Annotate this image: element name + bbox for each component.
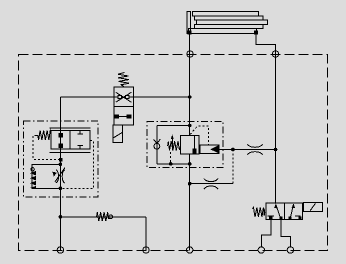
shutoff valve box2 square left (115, 115, 119, 118)
shutoff valve spring (118, 73, 129, 88)
pilot junction square (59, 159, 62, 161)
wire stack right to port (256, 34, 276, 203)
adjustable throttle arcs (56, 170, 64, 183)
solenoid diagonal (310, 203, 315, 211)
wire valve port B (281, 219, 290, 247)
adjustable throttle arrow (55, 168, 65, 182)
counterbalance piston strip (194, 136, 199, 154)
port circle bottom 4 (258, 247, 264, 253)
right box bottom port pin (289, 217, 291, 219)
check valve ball (154, 143, 160, 149)
throttle block spring chevron 4 (30, 186, 36, 189)
spring seat tab (263, 209, 265, 215)
junction dot (169, 162, 173, 166)
junction dot (59, 187, 63, 191)
throttle block spring chevron 2 (30, 176, 36, 181)
stack anchor left (188, 31, 191, 34)
junction dot (231, 148, 235, 152)
strip port square bottom (193, 149, 196, 153)
load stack plate 1 (193, 12, 259, 16)
port circle bottom 5 (287, 247, 293, 253)
system boundary dashed border (19, 55, 328, 251)
shutoff valve box 2 (114, 106, 133, 125)
compensator right box T top (77, 131, 83, 134)
junction dot (188, 182, 192, 186)
junction dot (188, 124, 192, 128)
load stack plate 5 (189, 29, 257, 34)
check valve seat (154, 139, 161, 143)
counterbalance pilot dashed top (190, 126, 208, 145)
junction dot (188, 162, 192, 166)
load stack plate 2 (195, 16, 264, 20)
wire left drop to flow control (59, 97, 61, 251)
wire bottom left right drop (145, 217, 147, 251)
right box T port pin (299, 217, 301, 219)
left box T (268, 216, 275, 220)
shutoff valve box2 path (116, 115, 131, 117)
port circle top right (272, 51, 278, 57)
pilot dashed riser (232, 150, 234, 184)
wire throttle branch (190, 183, 233, 185)
check valve ball bottom (109, 215, 113, 219)
throttle block circle (31, 168, 34, 171)
port circle bottom 1 (57, 247, 63, 253)
counterbalance enclosure dash-dot (147, 122, 223, 168)
compensator spring (37, 130, 52, 140)
pilot line dotted left (33, 136, 59, 160)
throttle block spring chevron 1 (30, 171, 36, 176)
compensator valve divider (69, 131, 71, 149)
junction dot (274, 148, 278, 152)
counterbalance arrow (171, 139, 173, 151)
port circle bottom 2 (143, 247, 149, 253)
load stack plate 4 (195, 24, 264, 28)
fixed throttle right arcs (247, 144, 262, 154)
left box bottom port pin (280, 217, 282, 219)
stack anchor right (255, 31, 258, 34)
throttle block outline (32, 164, 60, 188)
wire counterbalance output (219, 149, 276, 151)
counterbalance pilot dashed drop (170, 152, 172, 164)
wire valve port A (261, 219, 271, 247)
load stack plate 3 (197, 20, 268, 24)
right box flow path (290, 206, 293, 219)
compensator top rail (50, 127, 91, 129)
throttle block spring chevron 3 (30, 181, 36, 186)
wire center main vertical (189, 34, 191, 251)
junction dot (188, 95, 192, 99)
counterbalance loop top (157, 125, 190, 127)
shutoff valve seat square right (125, 95, 128, 98)
junction dot (59, 215, 63, 219)
directional valve spring (253, 208, 265, 218)
compensator valve body (51, 131, 90, 149)
port circle top left (187, 51, 193, 57)
counterbalance pilot box (200, 145, 219, 153)
counterbalance loop bottom (157, 163, 190, 165)
compensator port square top (59, 134, 62, 137)
compensator right box T bottom (77, 145, 83, 149)
counterbalance loop left (156, 126, 158, 164)
pilot line dotted right (61, 141, 94, 189)
right box T (295, 215, 300, 217)
flow control enclosure dash-dot (23, 121, 98, 197)
load stack back column (187, 12, 191, 34)
wire bottom left horizontal (60, 216, 146, 218)
pilot triangle (210, 145, 219, 153)
counterbalance spring (168, 141, 181, 151)
directional valve solenoid (303, 202, 322, 211)
shutoff valve box 1 (114, 87, 133, 106)
directional valve body (266, 203, 303, 220)
shutoff valve seat square left (118, 95, 121, 98)
left box flow path (276, 205, 281, 219)
shutoff valve solenoid (113, 125, 123, 142)
port circle bottom 3 (187, 247, 193, 253)
compensator bottom rail (50, 151, 91, 153)
directional valve divider (284, 203, 286, 220)
solenoid diagonal (114, 133, 123, 138)
shutoff valve X (116, 92, 132, 102)
compensator port square bottom (59, 144, 62, 147)
counterbalance main box (181, 136, 195, 154)
shutoff valve box2 square right (127, 115, 131, 118)
wire pump line horizontal (60, 96, 189, 98)
check valve spring bottom (97, 212, 109, 221)
junction dot (59, 163, 63, 167)
left box T port pin (270, 217, 272, 219)
fixed throttle left arcs (204, 179, 218, 189)
